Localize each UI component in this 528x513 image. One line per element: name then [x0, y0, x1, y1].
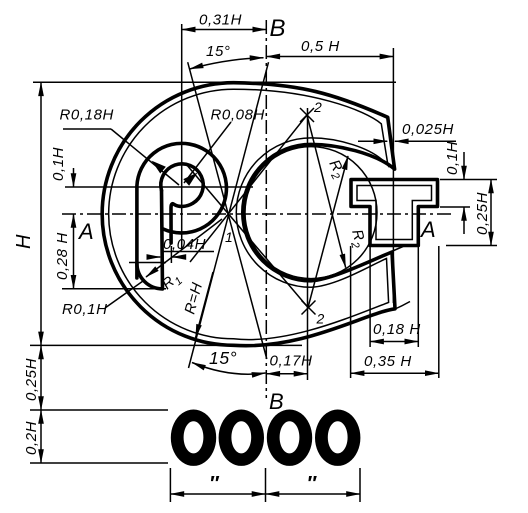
svg-text:0,04H: 0,04H [163, 236, 206, 253]
svg-text:0,2H: 0,2H [23, 421, 40, 455]
svg-text:15°: 15° [206, 43, 230, 60]
svg-text:A: A [419, 217, 436, 242]
svg-text:0,31H: 0,31H [199, 12, 242, 29]
svg-text:″: ″ [307, 473, 318, 495]
svg-text:2: 2 [316, 311, 325, 327]
svg-text:0,17H: 0,17H [270, 353, 313, 370]
svg-text:R0,1H: R0,1H [62, 301, 108, 318]
svg-text:0,18 H: 0,18 H [373, 321, 421, 338]
svg-text:″: ″ [209, 473, 220, 495]
svg-text:R0,18H: R0,18H [60, 107, 114, 124]
svg-text:0,025H: 0,025H [402, 121, 454, 138]
svg-text:0,1H: 0,1H [444, 141, 461, 175]
svg-text:0,25H: 0,25H [23, 358, 40, 401]
svg-text:0,28 H: 0,28 H [54, 232, 71, 280]
svg-text:0,25H: 0,25H [474, 192, 491, 235]
svg-text:B: B [270, 15, 287, 42]
svg-text:2: 2 [313, 99, 322, 115]
svg-text:1: 1 [225, 229, 233, 245]
svg-text:0,1H: 0,1H [50, 147, 67, 181]
svg-text:B: B [269, 389, 284, 414]
svg-text:H: H [13, 234, 35, 249]
svg-text:15°: 15° [209, 348, 237, 368]
svg-text:A: A [77, 219, 94, 244]
svg-text:0,35 H: 0,35 H [364, 353, 412, 370]
svg-text:R0,08H: R0,08H [211, 107, 265, 124]
svg-text:0,5 H: 0,5 H [301, 38, 340, 55]
